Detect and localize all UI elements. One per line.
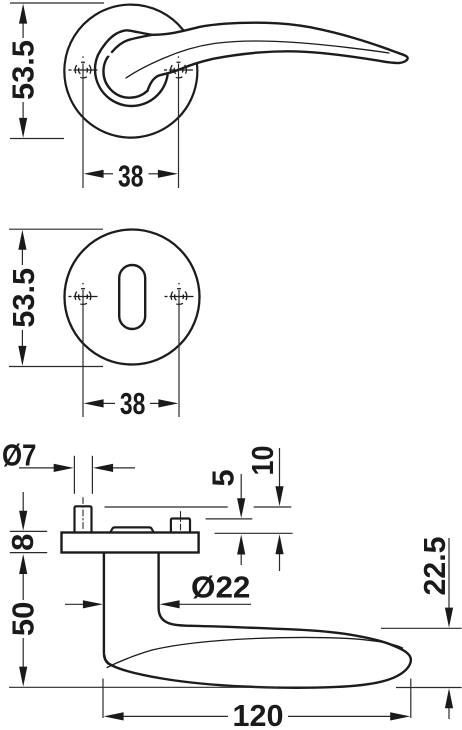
dimension Ø7 (top-left of side view) bbox=[19, 456, 135, 494]
svg-text:8: 8 bbox=[5, 534, 40, 551]
dimension 22.5 (right side) bbox=[381, 538, 462, 719]
svg-text:120: 120 bbox=[233, 698, 284, 730]
neck left edge bbox=[104, 554, 108, 664]
svg-text:10: 10 bbox=[245, 446, 280, 476]
grip side profile bbox=[105, 626, 411, 688]
dimension 53.5 (middle view, left) bbox=[9, 229, 103, 366]
svg-text:53.5: 53.5 bbox=[6, 40, 41, 100]
lever grip white fill mask bbox=[98, 23, 408, 91]
escutcheon circle bbox=[65, 230, 200, 365]
svg-text:38: 38 bbox=[120, 386, 146, 421]
screw hole symbol top-right bbox=[164, 56, 193, 78]
screw hole symbol top-left bbox=[69, 56, 98, 78]
left fixing peg (side) bbox=[75, 506, 92, 532]
right fixing peg (side) bbox=[171, 519, 190, 533]
left peg centreline bbox=[82, 498, 84, 532]
dimension 5 (peg height small) bbox=[206, 474, 253, 565]
grip side crease line bbox=[107, 637, 403, 667]
neck right edge curving into grip top bbox=[159, 554, 191, 626]
plate top extension line (shared for 5 and 10) bbox=[215, 532, 293, 534]
svg-text:38: 38 bbox=[118, 158, 144, 193]
svg-text:53.5: 53.5 bbox=[6, 268, 41, 328]
svg-text:Ø7: Ø7 bbox=[2, 438, 37, 473]
dimension 38 (middle view, below escutcheon) bbox=[83, 290, 179, 417]
keyhole slot (stadium shape) bbox=[119, 265, 145, 329]
dimension 53.5 (top view, left) bbox=[10, 3, 104, 139]
rose outer circle (front view), visible arc interrupted by lever grip bbox=[64, 5, 197, 138]
dimension 38 (top view, below rose) bbox=[83, 63, 179, 188]
neck silhouette line inside collar bbox=[112, 35, 152, 52]
dimension Ø22 (neck diameter, leader) bbox=[65, 603, 251, 605]
crease highlight line along grip top surface bbox=[126, 41, 389, 78]
collar outer circle visible arc bbox=[95, 55, 168, 106]
dimension 10 (peg height) bbox=[105, 448, 292, 571]
dimension 120 (overall length) bbox=[103, 679, 411, 719]
lever grip outline (top silhouette from collar to tip and back along underside) bbox=[98, 23, 408, 91]
collar inner circle (neck ring) visible arc bbox=[103, 52, 147, 98]
svg-text:50: 50 bbox=[6, 602, 41, 636]
svg-text:Ø22: Ø22 bbox=[191, 570, 250, 605]
svg-text:22.5: 22.5 bbox=[417, 537, 452, 596]
dimension 50 (left, plate to grip underside) bbox=[9, 572, 278, 687]
screw hole symbol middle-right bbox=[165, 283, 194, 305]
spindle boss bump on plate bbox=[111, 527, 154, 532]
dimension 8 (plate thickness) bbox=[10, 492, 47, 553]
rose plate (side) bbox=[62, 533, 199, 553]
screw hole symbol middle-left bbox=[69, 283, 98, 305]
right peg centreline bbox=[180, 512, 182, 532]
svg-text:5: 5 bbox=[206, 469, 241, 486]
